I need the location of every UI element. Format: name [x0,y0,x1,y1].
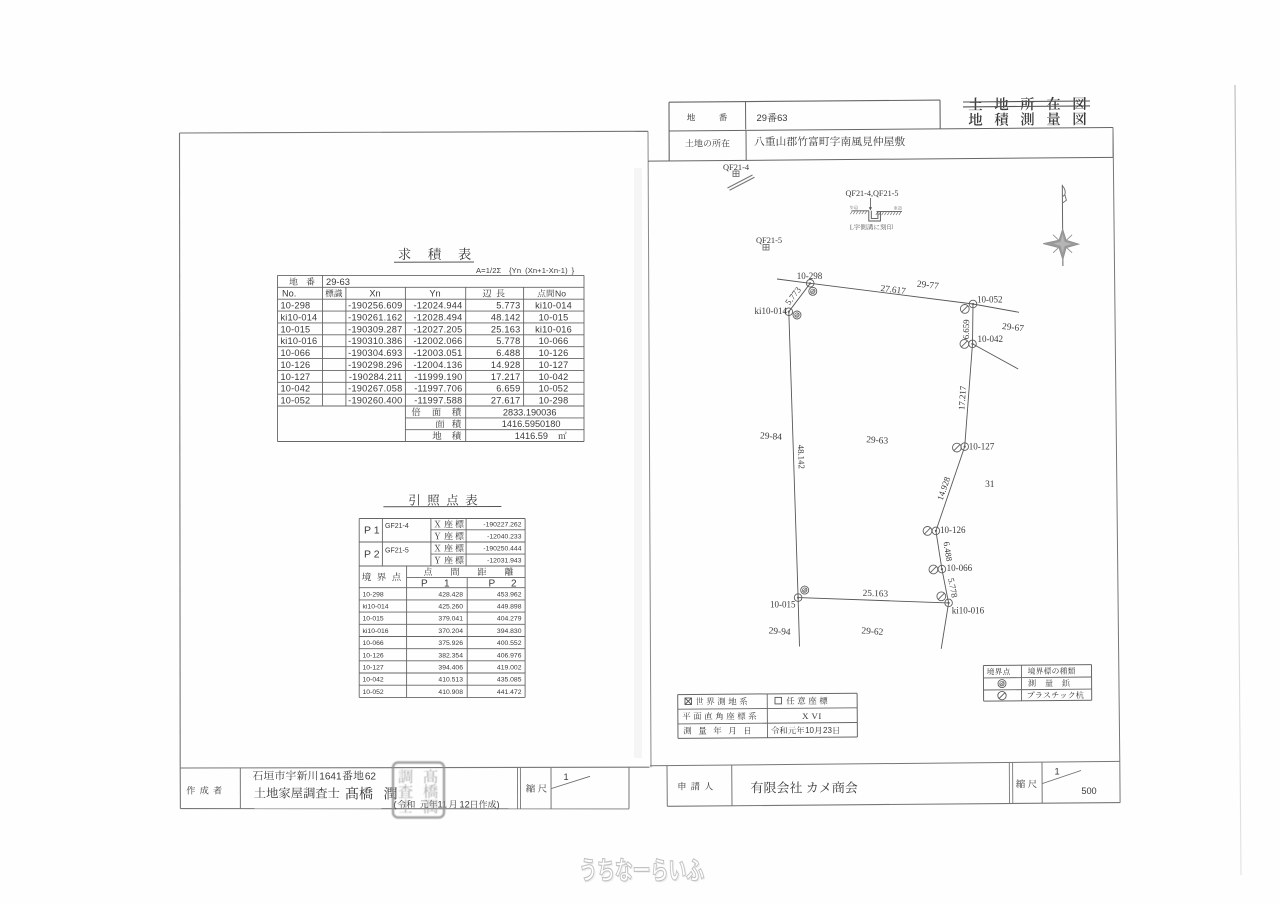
svg-text:GF21-5: GF21-5 [385,547,409,554]
svg-text:404.279: 404.279 [497,616,522,623]
svg-text:29: 29 [757,112,767,123]
svg-text:-190309.287: -190309.287 [348,324,402,334]
svg-text:1: 1 [444,579,450,590]
plastic pile symbol at 10-127 [953,443,962,452]
boundary edge 10-298 to 10-052 [810,283,973,304]
svg-text:-190250.444: -190250.444 [483,546,521,553]
inshou table grid [359,518,525,520]
svg-text:5.773: 5.773 [496,301,520,311]
svg-text:-12002.066: -12002.066 [414,336,463,346]
svg-text:-11997.588: -11997.588 [414,396,462,406]
svg-text:No: No [555,289,566,299]
kyuuseki table grid [278,274,585,276]
inshouten-hyou title [409,494,419,505]
svg-text:ki10-014: ki10-014 [755,306,788,316]
svg-text:375.926: 375.926 [438,640,463,647]
applicant label [679,782,686,790]
svg-text:379.041: 379.041 [438,616,463,623]
svg-text:10-066: 10-066 [947,563,973,573]
QF21-4 station mark [733,171,739,177]
boundary stub below 10-015 [798,598,799,647]
tochi-no-shozai row [648,157,1113,161]
label sakusei-sha [187,786,196,794]
svg-text:10-126: 10-126 [281,360,311,370]
chiban header box [669,100,940,102]
svg-text:10-127: 10-127 [539,360,569,370]
boundary edge 10-126 to 10-066 [936,531,942,569]
svg-text:-12004.136: -12004.136 [414,360,463,370]
boundary edge 10-052 to 10-042 [972,304,975,344]
svg-text:400.552: 400.552 [497,640,522,647]
svg-text:X VI: X VI [802,711,822,721]
svg-text:382.354: 382.354 [438,652,463,659]
svg-text:394.830: 394.830 [497,628,522,635]
svg-text:1416.5950180: 1416.5950180 [502,419,561,429]
svg-text:10-052: 10-052 [281,396,311,406]
map area frame [1113,128,1120,762]
maker name line [254,787,339,798]
svg-text:10-127: 10-127 [969,442,995,452]
svg-text:2833.190036: 2833.190036 [503,407,557,417]
svg-text:-190260.400: -190260.400 [348,396,402,406]
svg-text:ki10-016: ki10-016 [363,628,389,635]
svg-text:1: 1 [563,772,568,782]
svg-text:10-126: 10-126 [940,525,966,535]
survey date row [684,727,692,735]
north compass [1061,185,1064,266]
svg-text:6.659: 6.659 [496,384,520,394]
boundary point 10-066 [938,565,946,573]
svg-text:ki10-014: ki10-014 [281,312,318,322]
maker strip (sakusei-sha) borders [179,768,181,809]
QF21-5 station mark [763,245,769,251]
svg-text:10-127: 10-127 [281,372,311,382]
boundary point ki10-016 [945,599,953,607]
svg-text:6.659: 6.659 [961,319,971,340]
svg-text:-12027.205: -12027.205 [414,324,463,334]
plastic pile symbol at 10-126 [923,527,932,536]
boundary point 10-127 [961,443,969,451]
coordinate system info box [678,693,857,694]
svg-text:-12031.943: -12031.943 [487,558,522,565]
applicant strip borders [666,766,668,807]
svg-text:25.163: 25.163 [863,588,889,599]
svg-text:-190304.693: -190304.693 [348,348,402,358]
svg-text:-12040.233: -12040.233 [487,533,522,540]
svg-text:P 2: P 2 [364,549,380,561]
svg-text:23: 23 [823,726,832,735]
svg-text:-11997.706: -11997.706 [414,384,462,394]
svg-text:): ) [497,800,500,810]
svg-text:10-298: 10-298 [539,396,569,406]
svg-text:428.428: 428.428 [438,591,463,598]
svg-text:P 1: P 1 [364,525,380,537]
chiban label and value [687,113,695,121]
svg-text:63: 63 [777,112,787,123]
svg-text:10-052: 10-052 [363,689,384,696]
svg-text:29-62: 29-62 [861,626,884,638]
svg-text:ki10-014: ki10-014 [535,301,572,311]
right scale cell [1016,779,1025,788]
scan crease line at right edge [1235,85,1241,875]
strikethrough lines on first title [963,101,1090,102]
svg-text:ki10-014: ki10-014 [363,603,389,610]
svg-text:10-126: 10-126 [539,348,569,358]
svg-text:11: 11 [438,799,448,809]
svg-text:425.260: 425.260 [438,603,463,610]
svg-text:500: 500 [1081,786,1096,796]
svg-text:-12028.494: -12028.494 [414,312,463,322]
svg-text:-190227.262: -190227.262 [483,521,521,528]
kyuuseki summary rows [412,408,421,417]
svg-text:-11999.190: -11999.190 [414,372,462,382]
survey nail symbol at ki10-014 [793,311,801,319]
plastic pile symbol at 10-042 [960,340,969,349]
uchina-life watermark [582,858,706,883]
svg-text:-190256.609: -190256.609 [348,301,402,311]
svg-text:1641: 1641 [319,772,342,783]
applicant name [751,781,857,793]
double slash mark near QF21-4 [728,175,753,188]
svg-text:29-84: 29-84 [760,431,783,443]
svg-text:P: P [421,579,428,590]
svg-text:29-94: 29-94 [768,626,791,638]
maker address line [253,770,317,780]
legend header [987,668,994,675]
boundary edge 10-015 to ki10-014 [789,312,798,598]
boundary point distance header [362,573,371,582]
svg-text:10-066: 10-066 [539,336,569,346]
svg-text:10-066: 10-066 [363,640,384,647]
svg-text:10-015: 10-015 [770,599,796,609]
compass star [1043,229,1079,260]
svg-text:10-052: 10-052 [539,384,569,394]
legend survey nail row [998,680,1006,688]
svg-text:10-052: 10-052 [977,295,1003,305]
svg-text:10-015: 10-015 [539,312,569,322]
svg-text:6.488: 6.488 [496,348,520,358]
svg-text:419.002: 419.002 [497,664,522,671]
kyuusekihyou title [399,248,411,260]
survey nail symbol at 10-298 [809,287,817,295]
legend box boundary marker types [983,664,1091,667]
road line extension left of 10-298 [777,279,810,283]
svg-text:31: 31 [985,480,995,490]
svg-text:10-042: 10-042 [281,384,311,394]
svg-text:-190261.162: -190261.162 [348,312,402,322]
svg-text:-190267.058: -190267.058 [348,384,402,394]
boundary stub below ki10-016 [941,603,948,649]
inset L-gutter channel [869,211,881,221]
svg-text:1416.59: 1416.59 [515,431,548,441]
svg-text:25.163: 25.163 [491,324,521,334]
svg-text:10-042: 10-042 [539,372,569,382]
svg-text:1: 1 [1054,766,1059,776]
svg-text:ki10-016: ki10-016 [281,336,318,346]
svg-text:410.513: 410.513 [438,677,463,684]
svg-text:370.204: 370.204 [438,628,463,635]
svg-text:394.406: 394.406 [438,664,463,671]
svg-text:QF21-4,QF21-5: QF21-4,QF21-5 [846,189,899,198]
boundary point ki10-014 [785,308,793,316]
svg-text:10-015: 10-015 [363,616,384,623]
svg-text:10-298: 10-298 [797,271,823,281]
svg-text:10-042: 10-042 [363,677,384,684]
boundary point 10-126 [932,527,940,535]
svg-text:10-298: 10-298 [281,301,311,311]
left page outer frame [180,131,649,133]
svg-text:2: 2 [511,579,517,590]
tochi no shozai label and address [685,139,729,147]
svg-text:62: 62 [365,772,377,783]
svg-text:48.142: 48.142 [796,445,807,470]
document title tochi-shozaizu (struck out) [969,98,982,111]
svg-text:-12003.051: -12003.051 [414,348,463,358]
svg-text:A=1/2Σ {Yn (Xn+1-Xn-1) }: A=1/2Σ {Yn (Xn+1-Xn-1) } [476,266,575,275]
boundary edge ki10-014 to 10-298 [789,283,810,311]
svg-text:10-127: 10-127 [363,664,384,671]
plastic pile symbol at 10-052 [960,305,969,314]
boundary edge ki10-016 to 10-015 [798,598,949,603]
svg-text:410.908: 410.908 [438,689,463,696]
svg-text:453.962: 453.962 [497,591,522,598]
svg-text:441.472: 441.472 [497,689,522,696]
svg-text:Xn: Xn [369,288,380,298]
svg-text:No.: No. [282,288,296,298]
inset tiny labels [850,206,858,210]
plane rectangular coordinate system row [683,712,691,720]
svg-text:QF21-5: QF21-5 [756,236,782,245]
boundary point 10-052 [969,300,977,308]
svg-text:406.976: 406.976 [497,652,522,659]
svg-text:10: 10 [805,726,814,735]
svg-text:Yn: Yn [429,288,440,298]
chiban row bottom / tochi-no-shozai top [669,128,1113,132]
svg-text:10-298: 10-298 [363,591,384,598]
inset caption L-gutter engraved [850,224,893,230]
inset ground hatch left [852,210,870,212]
boundary point 10-042 [969,340,977,348]
left scale cell [526,784,535,793]
registered seal stamp of surveyor [393,763,444,818]
svg-text:12: 12 [460,799,470,809]
svg-text:-190284.211: -190284.211 [349,372,403,382]
page fold shadow between scanned pages [634,168,642,758]
kyuuseki header row: chiban 29-63 [289,277,297,285]
svg-text:17.217: 17.217 [956,385,968,410]
svg-text:14.928: 14.928 [491,360,521,370]
svg-text:29-63: 29-63 [866,435,889,447]
svg-text:GF21-4: GF21-4 [385,523,409,530]
road line extension right of 10-052 [973,304,1019,312]
legend plastic pile row [998,691,1006,699]
svg-text:17.217: 17.217 [491,372,521,382]
plastic pile symbol at 10-066 [929,565,938,574]
svg-text:10-066: 10-066 [281,348,311,358]
svg-text:-190298.296: -190298.296 [348,360,402,370]
svg-text:P: P [489,579,496,590]
boundary edge 10-042 to 10-127 [965,344,973,447]
svg-text:ki10-016: ki10-016 [952,605,985,615]
svg-text:10-015: 10-015 [281,324,311,334]
svg-text:449.898: 449.898 [497,603,522,610]
svg-text:-190310.386: -190310.386 [348,336,402,346]
plastic pile symbol at ki10-016 [937,592,946,601]
boundary edge 10-127 to 10-126 [936,447,965,531]
svg-text:435.085: 435.085 [497,677,522,684]
inset leader arrow [869,198,871,209]
svg-text:10-126: 10-126 [363,652,384,659]
svg-text:29-63: 29-63 [326,276,350,287]
boundary point 10-015 [794,594,802,602]
inset ground hatch right [877,211,903,213]
svg-text:5.778: 5.778 [496,336,520,346]
survey nail symbol at 10-015 [801,586,809,594]
world geodetic system row with checkboxes [685,697,782,704]
svg-text:-12024.944: -12024.944 [414,301,463,311]
boundary stub from 10-042 [973,344,1019,369]
boundary edge 10-066 to ki10-016 [942,569,949,603]
svg-text:10-042: 10-042 [978,334,1004,344]
svg-text:27.617: 27.617 [491,396,521,406]
svg-text:ki10-016: ki10-016 [535,324,572,334]
boundary point 10-298 [806,280,814,288]
svg-text:48.142: 48.142 [491,312,521,322]
